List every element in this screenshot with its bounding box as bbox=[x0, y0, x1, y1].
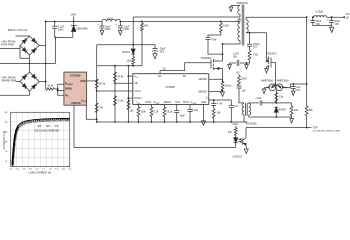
wire PGDLY pin bbox=[128, 97, 132, 99]
svg-text:100Ω: 100Ω bbox=[241, 78, 247, 81]
svg-text:GND: GND bbox=[201, 102, 206, 104]
wire VCC node line bbox=[97, 65, 142, 67]
svg-text:SMAJ58A: SMAJ58A bbox=[76, 27, 87, 30]
svg-text:GND: GND bbox=[71, 14, 77, 17]
resistor 80.6k bbox=[95, 79, 98, 89]
wire BR1 bottom to mid line bbox=[29, 55, 31, 72]
wire UVLO pin bbox=[97, 90, 133, 92]
wire shared mid line between bridges bbox=[0, 63, 56, 65]
wire VCC feed vertical bbox=[127, 66, 129, 122]
svg-text:100k: 100k bbox=[141, 111, 147, 114]
svg-text:2A: 2A bbox=[346, 17, 349, 20]
wire base node vertical bbox=[274, 63, 277, 103]
svg-text:BAS21: BAS21 bbox=[123, 51, 131, 54]
svg-text:GND: GND bbox=[233, 123, 239, 126]
capacitor 47pF snubber bbox=[206, 38, 223, 55]
resistor 18.2k (RCMP) bbox=[163, 104, 166, 122]
capacitor 2.2nF coupling bbox=[260, 100, 276, 105]
svg-text:PE-68386: PE-68386 bbox=[246, 123, 257, 126]
ground arrow Q3 collector bbox=[262, 88, 266, 94]
wire output rail after L2 bbox=[327, 16, 345, 18]
svg-text:1nF: 1nF bbox=[234, 105, 239, 108]
svg-text:2.2k: 2.2k bbox=[154, 111, 159, 114]
zener diode D9 SMAJ58A bbox=[71, 22, 77, 26]
svg-text:SG: SG bbox=[236, 72, 240, 75]
svg-text:33pF: 33pF bbox=[180, 115, 186, 118]
svg-text:10Ω: 10Ω bbox=[127, 60, 132, 63]
ground arrow Y-cap left bbox=[228, 63, 232, 69]
wire GND stub bbox=[73, 17, 75, 22]
node 12V 2A output terminal bbox=[343, 16, 345, 18]
svg-text:UVLO: UVLO bbox=[134, 90, 141, 93]
wire SG/PG gate route bbox=[160, 63, 211, 74]
wire cap return drop bbox=[55, 37, 57, 63]
wire VCC pin bbox=[128, 75, 132, 77]
ground arrow 1uF bbox=[292, 91, 296, 96]
svg-text:2kV: 2kV bbox=[253, 46, 258, 49]
svg-text:100V: 100V bbox=[105, 28, 111, 31]
svg-text:16V: 16V bbox=[296, 89, 301, 92]
svg-text:57V: 57V bbox=[54, 126, 59, 128]
graph x tick labels bbox=[9, 168, 72, 170]
wire BAS21 branch from bias rail bbox=[132, 17, 134, 49]
wire SENSE- bbox=[209, 91, 223, 92]
svg-text:100V: 100V bbox=[58, 28, 64, 31]
wire primary bottom to drain bbox=[223, 41, 241, 44]
wire FB divider vertical bbox=[114, 66, 116, 122]
resistor 2.2k (SYNC) bbox=[150, 104, 153, 122]
svg-text:GND: GND bbox=[80, 80, 86, 83]
wire drain vertical bbox=[222, 44, 224, 82]
wire T2 secondary bottom bbox=[249, 115, 270, 117]
svg-text:–: – bbox=[207, 90, 208, 92]
diode D5 BAT54 bbox=[274, 107, 278, 117]
junction top rail bbox=[45, 21, 47, 23]
svg-text:LTV817A: LTV817A bbox=[232, 155, 242, 158]
svg-text:48V: 48V bbox=[46, 126, 51, 128]
wire bias winding bottom to bias rail bbox=[239, 14, 241, 17]
optocoupler U3 phototransistor bbox=[243, 128, 247, 149]
svg-text:MMBT3906: MMBT3906 bbox=[261, 80, 274, 82]
svg-text:42V: 42V bbox=[37, 126, 42, 128]
wire Q4 collector to 12V node bbox=[291, 84, 307, 88]
capacitor 1nF (VC2) bbox=[214, 100, 234, 122]
svg-text:LOAD CURRENT (A): LOAD CURRENT (A) bbox=[29, 171, 52, 174]
bridge rectifier BR1 (data pair, B1100 diodes) bbox=[20, 36, 39, 55]
ground arrow sense bbox=[221, 92, 225, 97]
svg-text:30.9k: 30.9k bbox=[47, 84, 54, 87]
svg-text:16V: 16V bbox=[335, 23, 340, 26]
ground arrow opto emitter bbox=[244, 149, 248, 154]
ground arrow C3 bbox=[119, 31, 123, 36]
junction mid line bbox=[29, 63, 31, 65]
svg-text:ENDLY: ENDLY bbox=[164, 102, 172, 104]
resistor 10 ohm below BAS21 bbox=[132, 57, 135, 66]
svg-text:PG: PG bbox=[183, 75, 187, 78]
svg-text:LTC4265: LTC4265 bbox=[70, 73, 81, 77]
resistor 20k pullup bbox=[305, 106, 308, 128]
svg-text:SHDN: SHDN bbox=[65, 88, 72, 91]
wire BR2 + output bbox=[39, 81, 46, 83]
resistor RCLASS 30.9k bbox=[46, 82, 58, 91]
wire feedback vertical 12V sense bbox=[306, 17, 308, 106]
wire BR1 + output to top rail bbox=[39, 22, 46, 82]
svg-text:OSC: OSC bbox=[175, 102, 180, 104]
capacitor C10 10uF 16V bbox=[310, 17, 315, 25]
resistor 100R SG bbox=[238, 75, 241, 87]
ground arrow restore bbox=[290, 117, 294, 123]
svg-text:18.2k: 18.2k bbox=[167, 111, 174, 114]
wire bias winding top to GND arrow bbox=[231, 5, 240, 7]
svg-text:7.5k: 7.5k bbox=[279, 96, 284, 99]
svg-text:EFFICIENCY (%): EFFICIENCY (%) bbox=[3, 131, 6, 150]
resistor 7.5R snubber sec bbox=[247, 51, 251, 64]
svg-text:B1100 × 8 PLCS: B1100 × 8 PLCS bbox=[8, 28, 27, 32]
svg-text:SG: SG bbox=[158, 75, 162, 78]
svg-text:50mΩ: 50mΩ bbox=[225, 84, 232, 87]
capacitor 1uF 16V bias sec bbox=[291, 84, 296, 91]
svg-text:PWRGD: PWRGD bbox=[71, 102, 80, 105]
svg-text:100Ω: 100Ω bbox=[223, 25, 229, 28]
capacitor 470pF 2kV snubber sec bbox=[247, 33, 252, 51]
svg-text:2kV: 2kV bbox=[233, 55, 238, 58]
svg-text:16V: 16V bbox=[160, 50, 165, 53]
capacitor C1 0.1uF 100V bbox=[52, 22, 73, 38]
wire spare pair input A bbox=[16, 81, 21, 83]
ground arrow C2 bbox=[100, 31, 104, 36]
svg-text:MMBT3904: MMBT3904 bbox=[277, 80, 290, 82]
IC U2 LT3825 controller bbox=[133, 74, 209, 105]
wire gate-restore bottom bbox=[270, 116, 292, 118]
svg-text:0.33µH: 0.33µH bbox=[316, 11, 324, 14]
wire primary top to -54V rail bbox=[239, 19, 241, 22]
resistor RSENSE 50mR bbox=[221, 82, 224, 91]
ground triangle (GND pin) bbox=[201, 104, 205, 125]
wire data pair input B bbox=[0, 46, 30, 59]
svg-text:1µF: 1µF bbox=[242, 90, 247, 93]
resistor 7.5k base-emitter bbox=[275, 93, 278, 103]
wire GND pin to divider bbox=[87, 80, 97, 82]
svg-text:4.7nF: 4.7nF bbox=[217, 103, 224, 106]
capacitor 0.1uF (SFST) bbox=[188, 104, 193, 122]
capacitor C2 10uF 100V bbox=[100, 22, 105, 31]
resistor 10k gate restore bbox=[290, 103, 293, 117]
diode D1 BAS21 bbox=[131, 49, 135, 57]
svg-text:FDS2672: FDS2672 bbox=[267, 53, 278, 56]
resistor 100k (tON) bbox=[137, 104, 140, 122]
wire gate-restore top bbox=[276, 102, 291, 104]
graph y tick labels bbox=[5, 112, 8, 163]
efficiency graph bbox=[3, 112, 72, 174]
svg-text:SG: SG bbox=[163, 67, 167, 70]
wire -54V power rail to transformer bbox=[120, 21, 240, 23]
capacitor C4 10uF 16V (VCC) bbox=[152, 45, 158, 54]
svg-text:SFST: SFST bbox=[183, 102, 189, 104]
svg-text:FDS2582: FDS2582 bbox=[201, 57, 212, 60]
svg-text:CLASS: CLASS bbox=[67, 83, 74, 86]
svg-text:+: + bbox=[207, 78, 208, 80]
svg-text:SYNC: SYNC bbox=[145, 102, 152, 104]
wire secondary top to output rail bbox=[246, 17, 307, 19]
wire node line y=44.8 bbox=[97, 44, 155, 46]
wire left vertical (UVLO divider) bbox=[96, 45, 98, 122]
efficiency curves 42V 48V 57V bbox=[12, 118, 70, 166]
ground arrow output bbox=[330, 26, 334, 33]
svg-text:3.01k: 3.01k bbox=[117, 100, 124, 103]
svg-text:SPARE PAIR: SPARE PAIR bbox=[1, 79, 16, 83]
wire TOP signal line bbox=[246, 127, 311, 129]
wire top GND rail left section bbox=[46, 21, 102, 23]
resistor 3.01k bbox=[114, 96, 117, 106]
wire emitters to gate node bbox=[274, 84, 276, 86]
wire bottom ground bus bbox=[97, 121, 247, 123]
wire PWRGD down and right bbox=[73, 105, 75, 147]
capacitor 4.7nF (VC) bbox=[209, 100, 216, 109]
ground arrow C4 bbox=[153, 54, 157, 59]
resistor 10k (VC) bbox=[212, 109, 215, 123]
svg-text:(TO MICROCONTROLLER): (TO MICROCONTROLLER) bbox=[313, 131, 341, 133]
wire secondary bottom / node S bbox=[246, 33, 267, 59]
resistor 10k (PGDLY leg) bbox=[127, 100, 130, 110]
wire spare pair input B bbox=[0, 91, 30, 95]
optocoupler U3 LTV817A LED bbox=[234, 138, 238, 148]
resistor 91k opto bbox=[234, 126, 237, 138]
IC U1 LTC4265 PD interface (highlighted) bbox=[64, 72, 87, 105]
resistor 14k bbox=[95, 103, 98, 113]
transformer T2 PE-68386 bbox=[242, 103, 251, 116]
svg-text:SENSE: SENSE bbox=[198, 90, 207, 93]
resistor 24.9k bbox=[114, 72, 117, 82]
svg-text:PGDLY: PGDLY bbox=[134, 97, 142, 100]
wire T2 secondary top to coupling cap bbox=[249, 102, 259, 105]
wire bias rail bbox=[133, 16, 240, 18]
graph axes box bbox=[11, 112, 70, 166]
resistor 39k trickle from rail bbox=[141, 22, 144, 66]
svg-text:TOP: TOP bbox=[313, 127, 318, 130]
ground arrow Y-cap right bbox=[245, 63, 249, 69]
ground arrow Q2 source bbox=[265, 69, 269, 74]
capacitor 1uF SG bbox=[237, 86, 245, 103]
svg-text:24.9k: 24.9k bbox=[117, 76, 124, 79]
inductor L1 10uH bbox=[102, 19, 120, 21]
capacitor C3 3.3uF 100V bbox=[118, 22, 123, 31]
svg-text:12V: 12V bbox=[345, 13, 350, 16]
svg-text:DATA PAIR: DATA PAIR bbox=[1, 43, 14, 47]
svg-text:PA0367NL: PA0367NL bbox=[237, 2, 249, 5]
svg-text:0.1µF: 0.1µF bbox=[192, 109, 199, 112]
svg-text:47pF: 47pF bbox=[211, 39, 217, 42]
graph grid bbox=[11, 112, 70, 166]
svg-text:BAT54: BAT54 bbox=[279, 109, 287, 112]
svg-text:80.6k: 80.6k bbox=[99, 83, 106, 86]
junction dots on bus bbox=[96, 121, 98, 123]
svg-text:10µH: 10µH bbox=[107, 17, 113, 20]
svg-text:LT3825: LT3825 bbox=[165, 85, 175, 89]
wire data pair input A bbox=[16, 35, 30, 37]
inductor L2 0.33uH output bbox=[314, 16, 327, 18]
svg-text:2.2nF: 2.2nF bbox=[256, 97, 263, 100]
wire output gnd line bbox=[313, 25, 332, 27]
capacitor C11 47uF 16V bbox=[329, 17, 334, 25]
resistor 100R snubber bbox=[208, 22, 222, 38]
bridge rectifier BR2 (spare pair) bbox=[20, 72, 39, 91]
wire SENSE+ bbox=[209, 79, 223, 81]
svg-text:FB: FB bbox=[134, 82, 137, 85]
capacitor 33pF (OSC) bbox=[174, 104, 179, 122]
wire PWRGD line joins LED bbox=[74, 147, 236, 149]
wire T2 primary bottom to bus bbox=[244, 115, 247, 122]
svg-text:EXCLUDING BRIDGES: EXCLUDING BRIDGES bbox=[35, 131, 60, 133]
wire FB pin bbox=[115, 82, 133, 84]
svg-text:7.5Ω: 7.5Ω bbox=[253, 54, 258, 57]
svg-text:100V: 100V bbox=[123, 28, 129, 31]
wire VOUT pin (bottom corner route) bbox=[86, 105, 96, 119]
wire RCLASS / SHDN / VIN pins bbox=[58, 84, 64, 95]
